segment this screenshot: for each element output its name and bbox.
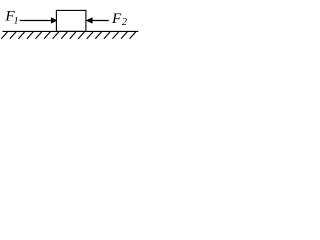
ground line — [3, 30, 139, 32]
svg-text:1: 1 — [14, 15, 19, 26]
force F2 arrow shaft (pointing left into box) — [92, 20, 109, 22]
ground hatching — [1, 32, 135, 39]
block (box) resting on ground — [56, 10, 86, 31]
force F1 arrow shaft (pointing right into box) — [20, 20, 52, 22]
svg-text:F: F — [111, 10, 122, 27]
force F1 arrowhead — [51, 18, 56, 23]
force F2 arrowhead — [86, 18, 92, 23]
svg-text:2: 2 — [122, 17, 127, 28]
